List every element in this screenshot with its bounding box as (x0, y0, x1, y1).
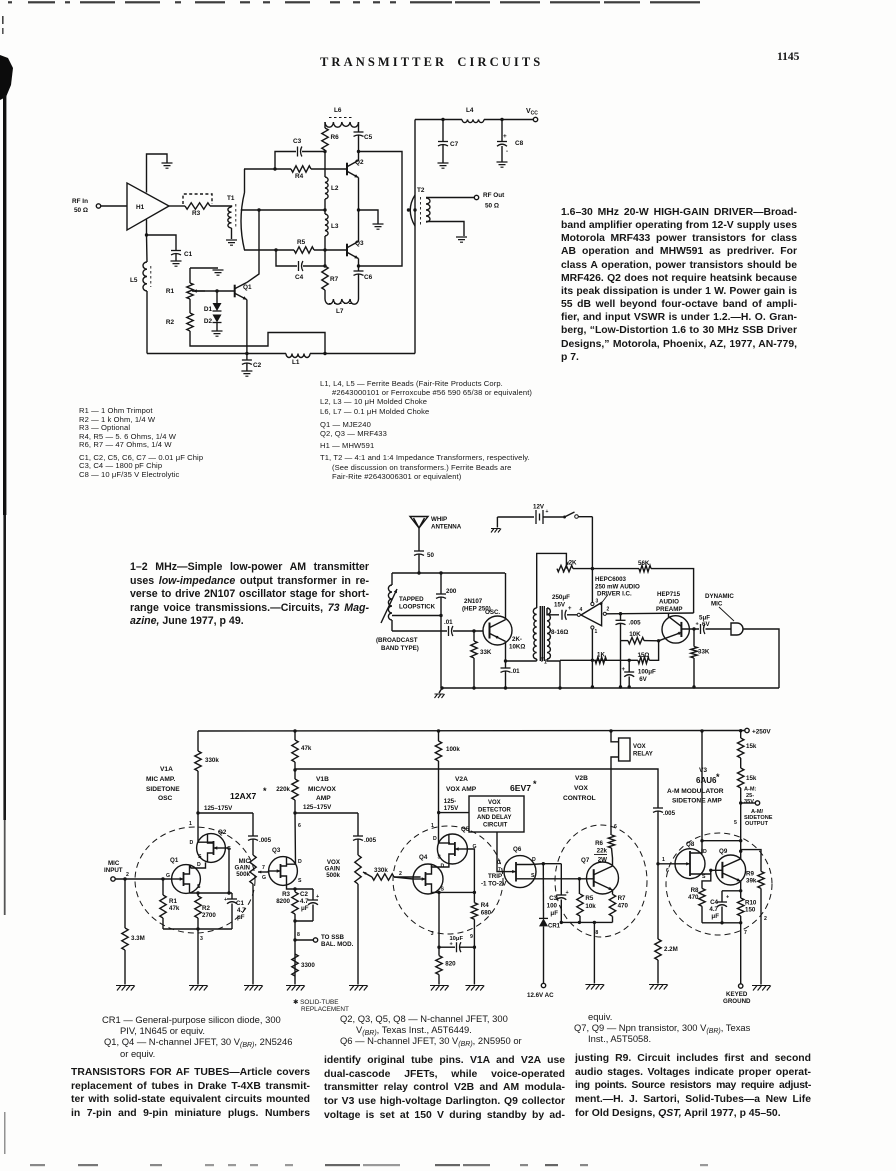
ground (241, 371, 252, 376)
svg-text:C2: C2 (253, 362, 262, 369)
wire R3 to T1 (210, 206, 232, 207)
JFET Q3 (269, 857, 298, 886)
svg-text:μF: μF (711, 913, 719, 920)
svg-text:Q4: Q4 (419, 854, 428, 861)
wire T1 center tap to L2 L3 node (241, 209, 325, 211)
wire T1 secondary top lead (244, 169, 246, 193)
resistor R9 39k (758, 871, 764, 888)
junction (245, 352, 248, 355)
wire 15 ohm to emitter node (649, 641, 658, 661)
svg-text:D1: D1 (204, 306, 213, 313)
svg-text:Q3: Q3 (355, 240, 364, 247)
junction (657, 639, 660, 642)
op-amp pin 2 circle (603, 612, 606, 615)
capacitor C1 4.7uF (227, 898, 237, 900)
capacitor C3 100uF (556, 894, 566, 896)
resistor R7 (322, 266, 328, 290)
wire L6 to C5 (358, 122, 360, 132)
svg-text:*: * (533, 779, 537, 789)
dynamic microphone (731, 623, 743, 635)
op-amp pin 4 circle (577, 613, 580, 616)
junction (357, 150, 360, 153)
capacitor C4 (299, 261, 303, 271)
ground (435, 694, 445, 698)
resistor 100k (435, 741, 441, 761)
svg-text:.005: .005 (663, 810, 676, 817)
wire .005 to pot (252, 840, 254, 856)
svg-text:R7: R7 (330, 276, 339, 283)
svg-text:R3: R3 (192, 210, 201, 217)
wire mic input to gate (115, 878, 172, 880)
svg-text:2: 2 (607, 607, 610, 613)
svg-text:C4: C4 (710, 899, 718, 906)
svg-text:56K: 56K (638, 560, 650, 567)
resistor R5 10k (577, 894, 583, 916)
junction (656, 862, 659, 865)
capacitor 50 pF (414, 550, 424, 552)
svg-text:DYNAMIC: DYNAMIC (705, 593, 734, 600)
footnote: solid-tube replacement (293, 1000, 349, 1013)
wire to C3 (543, 863, 561, 865)
wire C7 to ground (442, 145, 444, 163)
svg-text:47k: 47k (301, 745, 312, 752)
svg-text:C7: C7 (450, 141, 459, 148)
wire cathode row V3 (702, 922, 741, 924)
svg-text:R2: R2 (202, 905, 210, 912)
svg-text:2: 2 (764, 916, 767, 922)
wire Q7 emitter to R7 (612, 890, 614, 894)
wire B+ to collector node (702, 840, 741, 842)
junction (739, 850, 742, 853)
svg-text:3: 3 (596, 599, 599, 605)
resistor 330k coupling (372, 874, 394, 880)
wire emitter node to C4 (722, 890, 741, 892)
wire (101, 205, 127, 207)
svg-text:KEYED: KEYED (726, 991, 748, 998)
svg-text:T1: T1 (227, 195, 235, 202)
junction (145, 233, 148, 236)
VOX detector box (469, 796, 524, 832)
svg-text:SIDETONE: SIDETONE (146, 786, 180, 793)
wire H1 top to ground (147, 154, 168, 193)
wire source row V2A (439, 891, 474, 893)
ground (116, 986, 135, 991)
svg-text:TRIP: TRIP (488, 873, 502, 880)
svg-text:33K: 33K (480, 649, 492, 656)
svg-text:ANTENNA: ANTENNA (431, 524, 462, 531)
capacitor 100uF 6V (624, 671, 634, 673)
wire to A-M terminal (741, 802, 755, 804)
junction (437, 891, 440, 894)
junction (473, 946, 476, 949)
ground (244, 986, 263, 991)
junction (439, 614, 442, 617)
junction (215, 289, 218, 292)
svg-text:2K-: 2K- (512, 636, 522, 643)
junction (720, 921, 723, 924)
RF In terminal (96, 204, 100, 208)
wire R5 down (579, 916, 581, 922)
bottom bold paragraph column 2 (324, 1054, 565, 1123)
pointer to mic (719, 607, 734, 621)
MIC INPUT terminal (111, 877, 115, 881)
transformer T1 primary (8-16 ohm) (533, 608, 536, 659)
wire 47k to 220k (294, 762, 296, 779)
wire gate return to ground (473, 947, 475, 984)
wire rail to 100k (438, 731, 440, 741)
svg-text:R9: R9 (746, 871, 754, 878)
junction (739, 839, 742, 842)
wire Q2 collector (358, 152, 360, 161)
resistor 15k upper (738, 738, 744, 758)
svg-text:R3: R3 (282, 891, 290, 898)
junction (293, 811, 296, 814)
svg-text:220k: 220k (276, 786, 290, 793)
svg-text:AMP: AMP (316, 795, 331, 802)
wire loopstick tap (392, 615, 441, 617)
svg-text:D: D (298, 859, 302, 865)
svg-text:250 mW AUDIO: 250 mW AUDIO (595, 584, 640, 591)
wire T1 primary to ground (231, 228, 233, 239)
switch (563, 516, 566, 519)
junction (709, 869, 712, 872)
bottom parts list column 2 (340, 1013, 580, 1047)
junction (472, 686, 475, 689)
wire to tank (418, 555, 420, 574)
bottom bold paragraph column 1 (71, 1066, 310, 1121)
svg-text:+250V: +250V (752, 729, 771, 736)
wire (267, 871, 270, 872)
wire switch to V+ rail (579, 516, 593, 518)
junction (417, 571, 420, 574)
svg-text:CR1: CR1 (548, 924, 561, 930)
junction (591, 685, 594, 688)
wire Vcc rail to T2 primary (414, 120, 416, 354)
svg-text:250μF: 250μF (552, 594, 570, 601)
wire C2 to ground (246, 364, 248, 372)
wire to keyed ground (740, 923, 742, 984)
capacitor C6 (354, 270, 364, 272)
svg-text:Q2: Q2 (218, 829, 227, 836)
capacitor C1 (171, 250, 181, 252)
tapped loopstick coil (388, 585, 392, 620)
wire C1 to ground (175, 254, 177, 261)
potentiometer 2K (557, 565, 573, 571)
svg-text:HEPC6003: HEPC6003 (595, 576, 627, 583)
junction (473, 891, 476, 894)
wire L3 down (324, 236, 326, 266)
inductor L7 (ferrite bead) (325, 299, 359, 304)
T1 core dashes (235, 204, 237, 229)
svg-text:125-: 125- (444, 798, 456, 805)
wire 15k to 15k (740, 758, 742, 768)
Vcc rail right (484, 119, 533, 121)
wire to C2 (312, 889, 314, 900)
svg-text:5: 5 (734, 820, 737, 826)
page number 1145 (777, 51, 799, 63)
ground (373, 224, 384, 229)
wire ground to battery (497, 516, 534, 518)
svg-text:CIRCUIT: CIRCUIT (483, 823, 508, 829)
junction (293, 729, 296, 732)
resistor 47k (292, 740, 298, 762)
svg-text:.005: .005 (364, 837, 377, 844)
svg-text:50: 50 (427, 552, 434, 559)
svg-text:RELAY: RELAY (633, 752, 653, 758)
wire to R5 (244, 249, 294, 251)
wire mic return (743, 629, 779, 688)
wire to C2 (246, 354, 248, 361)
svg-text:200: 200 (446, 588, 457, 595)
svg-text:G: G (262, 875, 266, 881)
svg-text:V1B: V1B (316, 776, 329, 783)
svg-text:R2: R2 (166, 319, 175, 326)
svg-text:Q2: Q2 (355, 159, 364, 166)
caption: 1-2 MHz AM transmitter (130, 561, 369, 629)
wire to VOX box (439, 812, 469, 814)
bottom parts list column 1 (88, 1014, 338, 1059)
resistor 15k lower (738, 768, 744, 788)
svg-text:-1 TO-2V: -1 TO-2V (481, 881, 507, 888)
fraction bar 22k/2W (594, 854, 607, 856)
svg-text:4: 4 (580, 607, 583, 613)
wire cap to Q base (453, 630, 483, 632)
svg-text:8200: 8200 (276, 898, 290, 905)
svg-text:6: 6 (298, 823, 301, 829)
transistor Q6 (504, 856, 536, 888)
svg-text:Q1: Q1 (243, 284, 252, 291)
wire to C4 (276, 250, 297, 266)
svg-text:INPUT: INPUT (104, 867, 123, 874)
tube envelope V2B (dashed) (555, 825, 647, 937)
svg-text:39k: 39k (746, 878, 757, 885)
junction (591, 567, 594, 570)
JFET Q5 (437, 834, 467, 864)
wire to C8 (501, 120, 503, 142)
svg-text:35V: 35V (744, 799, 754, 805)
diode D2 (213, 315, 222, 323)
resistor 56K (639, 565, 651, 571)
whip antenna (410, 517, 428, 529)
wire 2K to supply (573, 568, 592, 570)
svg-text:+: + (726, 895, 729, 901)
capacitor C5 (354, 131, 364, 133)
svg-text:100: 100 (547, 903, 558, 910)
svg-text:Q8: Q8 (686, 841, 695, 848)
transistor 2N107 oscillator (483, 616, 512, 645)
wire T2 to RF Out (426, 197, 474, 199)
svg-text:12.6V AC: 12.6V AC (527, 992, 554, 999)
ground (497, 162, 508, 167)
wire cathode row V1A (163, 928, 232, 930)
bottom bold paragraph column 3 (575, 1052, 811, 1121)
wire to C3 (275, 152, 296, 170)
junction (500, 118, 503, 121)
svg-text:R4: R4 (481, 902, 489, 909)
resistor 2.2M (655, 939, 661, 960)
bottom parts list column 3 (574, 1011, 814, 1045)
svg-text:OUTPUT: OUTPUT (745, 821, 769, 827)
junction (407, 208, 410, 211)
svg-text:+: + (546, 509, 549, 515)
svg-text:C1: C1 (236, 900, 244, 907)
svg-text:C5: C5 (364, 134, 373, 141)
svg-text:S: S (197, 884, 201, 890)
wire R6 to L2 (324, 150, 326, 177)
wire to C7 (442, 120, 444, 142)
svg-text:3: 3 (200, 936, 203, 942)
wire drain to CR1 (542, 864, 544, 919)
wire (189, 892, 191, 894)
wire to R4 (244, 168, 291, 170)
wire R8 down (701, 906, 703, 923)
junction (441, 118, 444, 121)
junction (692, 627, 695, 630)
potentiometer VOX GAIN 500k (355, 855, 361, 884)
svg-text:VOX: VOX (574, 785, 589, 792)
capacitor 10uF (457, 942, 461, 952)
+250V terminal (745, 728, 749, 732)
svg-text:1K: 1K (597, 652, 605, 659)
svg-text:SIDETONE AMP: SIDETONE AMP (672, 798, 722, 805)
svg-text:100μF: 100μF (638, 669, 656, 676)
wire T1 secondary to 250uF (547, 608, 559, 615)
wire 100uF to rail (628, 677, 630, 688)
parts list right column (320, 379, 550, 481)
wire loopstick bottom (391, 620, 393, 631)
wire 330k down (197, 771, 199, 813)
svg-text:MIC/VOX: MIC/VOX (308, 786, 336, 793)
junction (593, 921, 596, 924)
JFET Q8 (675, 849, 705, 879)
svg-text:MIC: MIC (711, 601, 723, 608)
svg-text:10K: 10K (629, 631, 641, 638)
ground (438, 163, 449, 168)
junction (323, 208, 326, 211)
capacitor .01 bypass (501, 667, 511, 669)
inductor L1 (ferrite bead) (286, 354, 310, 358)
svg-text:R10: R10 (745, 900, 757, 907)
svg-text:TAPPED: TAPPED (399, 596, 424, 603)
wire rail to Q8 drain (701, 731, 703, 841)
junction (273, 167, 276, 170)
wire pot to ground (252, 884, 254, 985)
transformer T2 secondary (426, 198, 430, 222)
svg-text:15k: 15k (746, 743, 757, 750)
transformer T2 (410, 195, 415, 226)
resistor R8 470 (699, 888, 705, 906)
svg-text:C4: C4 (295, 274, 304, 281)
tube envelope V3 (dashed) (666, 833, 772, 935)
svg-text:VOX AMP: VOX AMP (446, 786, 477, 793)
svg-text:6AU6: 6AU6 (696, 776, 717, 785)
resistor 33K mic (691, 647, 697, 659)
resistor R6 22k 2W (608, 835, 614, 848)
resistor R2 (187, 313, 193, 331)
junction (293, 938, 296, 941)
resistor R3 8200 (292, 892, 298, 914)
svg-text:OSC.: OSC. (485, 609, 500, 616)
svg-text:.005: .005 (629, 620, 642, 627)
wire R1 top (190, 267, 218, 269)
svg-text:Q9: Q9 (719, 848, 728, 855)
svg-text:BAND TYPE): BAND TYPE) (381, 645, 419, 652)
svg-text:2: 2 (399, 871, 402, 877)
wire to coupling cap (392, 630, 447, 632)
wire Q1 emitter down (246, 300, 248, 354)
svg-text:1: 1 (662, 857, 665, 863)
ferrite bead dash L6 (329, 117, 354, 119)
svg-text:RF In: RF In (72, 198, 88, 205)
ground (171, 261, 182, 266)
wire Q2 source to Q1 drain (191, 862, 206, 868)
wire rail corner (740, 731, 742, 738)
svg-text:-: - (506, 149, 508, 155)
svg-text:820: 820 (445, 961, 456, 968)
ground (286, 986, 305, 991)
svg-text:3300: 3300 (301, 962, 315, 969)
svg-text:V2A: V2A (455, 776, 468, 783)
svg-text:4.7: 4.7 (300, 898, 309, 905)
wire T1 secondary bottom to rail (547, 659, 560, 688)
wire to R5 (578, 879, 580, 894)
wire R4 to Q2 base (311, 168, 347, 170)
svg-text:500k: 500k (236, 871, 250, 878)
wire R2 bottom jog (190, 331, 325, 354)
capacitor C2 4.7uF (308, 899, 318, 901)
wire (189, 290, 191, 292)
inductor L2 (325, 177, 328, 199)
wire relay down to R6 (611, 757, 619, 835)
inductor L3 (325, 214, 328, 236)
resistor R4 680 (471, 903, 477, 920)
svg-text:*: * (716, 772, 720, 782)
caption: 1.6-30 MHz 20-W high-gain driver (561, 206, 797, 364)
svg-text:L7: L7 (336, 308, 344, 315)
wire CR1 to 12.6V terminal (543, 926, 545, 983)
wire Q6 source to Q7 base (516, 878, 595, 880)
amplifier module H1 (127, 183, 169, 230)
svg-text:V1A: V1A (160, 766, 173, 773)
wire H1 bottom (146, 220, 148, 236)
svg-text:6V: 6V (639, 676, 647, 683)
trimpot wiper arrow R1 (193, 290, 205, 292)
battery 12V (536, 510, 543, 524)
wire base to 5uF (681, 628, 699, 630)
svg-text:47k: 47k (169, 905, 180, 912)
resistor 10K (628, 637, 644, 643)
svg-text:L3: L3 (331, 223, 339, 230)
junction (357, 208, 360, 211)
wire to ground V1A (197, 929, 199, 985)
svg-text:15k: 15k (746, 775, 757, 782)
wire V+ vertical (591, 517, 593, 603)
svg-text:*: * (263, 786, 267, 796)
svg-text:330k: 330k (374, 867, 388, 874)
wire H1 out (169, 205, 185, 207)
tank top rail (392, 572, 505, 574)
junction (293, 768, 296, 771)
diode D1 (213, 303, 222, 311)
potentiometer MIC GAIN 500k (250, 855, 256, 884)
wire 56K to collector node (651, 569, 694, 613)
svg-text:C8: C8 (515, 140, 524, 147)
wire collector to tank (505, 573, 507, 620)
svg-text:2.2M: 2.2M (664, 946, 678, 953)
capacitor C3 (298, 147, 302, 157)
wire V1B plate to sidetone coupling (296, 769, 658, 808)
resistor R7 470 (609, 894, 615, 916)
